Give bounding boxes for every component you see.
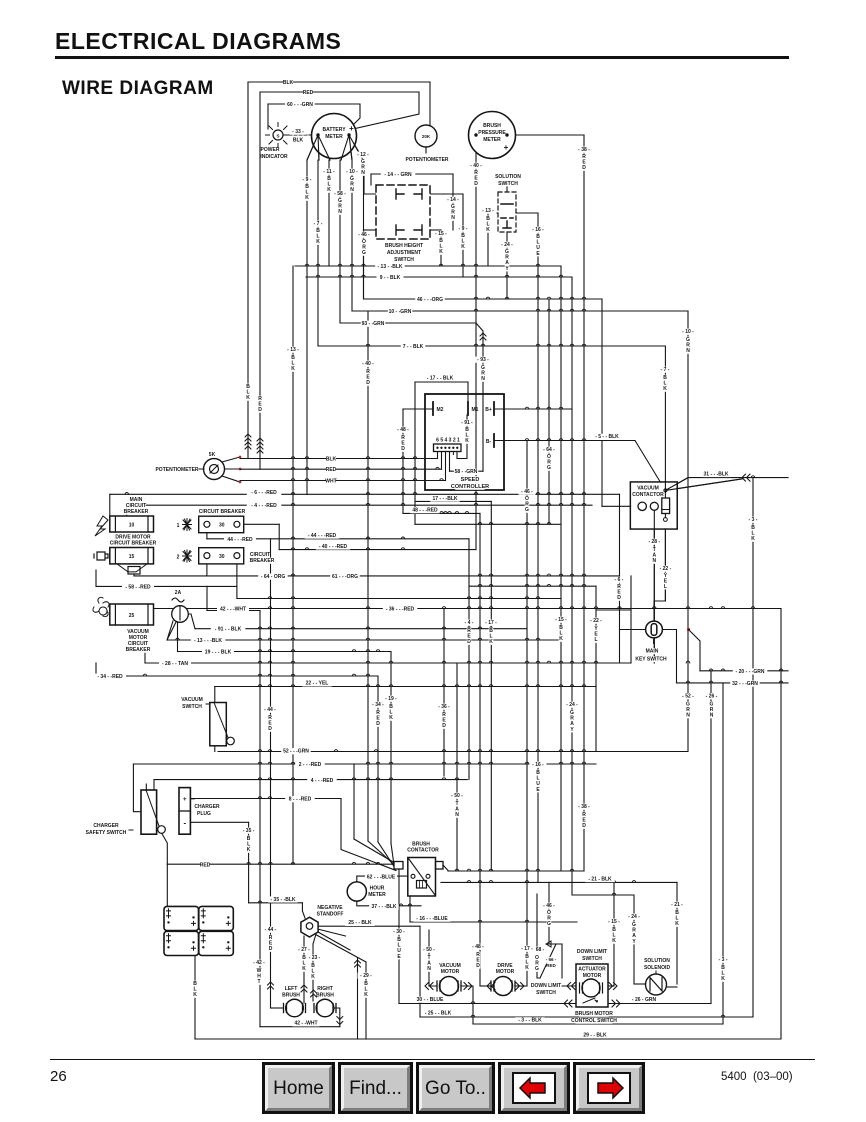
svg-text:- 16 -: - 16 - [532,762,544,768]
wire 23 BLK vertical [312,957,314,1001]
wire 17 BLK upper horizontal [415,523,561,525]
wire 48 RED lower [403,512,480,514]
svg-text:- 91 -: - 91 - [461,420,473,426]
battery negative wire [194,955,196,1040]
wire 17 BLK right vertical [490,501,492,871]
svg-text:- 15 -: - 15 - [555,617,567,623]
svg-text:42 - - -WHT: 42 - - -WHT [220,606,246,612]
svg-text:5K: 5K [209,452,216,458]
svg-text:- 13 - -BLK: - 13 - -BLK [378,264,403,270]
wire 24 GRAY jog [572,882,634,984]
svg-text:- 21 - BLK: - 21 - BLK [588,876,612,882]
svg-text:- 28 - - TAN: - 28 - - TAN [162,661,188,667]
svg-text:BRUSH HEIGHT: BRUSH HEIGHT [385,243,423,249]
svg-text:RED: RED [200,862,211,868]
svg-text:D: D [582,165,586,171]
svg-text:BREAKER: BREAKER [250,558,275,564]
svg-text:SPEED: SPEED [461,477,480,483]
svg-text:K: K [486,227,490,233]
wire 8 RED elbow to brush contactor [341,799,396,871]
potentiometer 5K [204,459,225,480]
svg-text:BRUSH: BRUSH [282,993,300,999]
battery positive wire [166,864,168,906]
connector 654321 [433,437,463,443]
wire 19 BLK [178,651,392,653]
svg-text:DOWN LIMIT: DOWN LIMIT [577,949,607,955]
brush contactor [414,841,429,847]
svg-text:K: K [291,366,295,372]
svg-text:93 - -GRN: 93 - -GRN [362,321,385,327]
svg-text:PLUG: PLUG [197,811,211,817]
svg-text:37 - - -BLK: 37 - - -BLK [372,904,397,910]
nav button GoTo [416,1062,495,1114]
svg-text:CONTACTOR: CONTACTOR [632,492,664,498]
svg-text:- 38 -: - 38 - [578,147,590,153]
svg-text:D: D [474,181,478,187]
wire BLK left vertical [247,82,249,459]
wire 2 RED drop to contactor [353,764,355,839]
rail 871 [448,870,584,872]
svg-text:INDICATOR: INDICATOR [260,154,288,160]
wire 29 BLK vertical [365,962,367,1039]
svg-text:POTENTIOMETER: POTENTIOMETER [405,157,448,163]
circuit breaker 1 output lead [240,523,279,525]
svg-text:D: D [376,721,380,727]
svg-text:POWER: POWER [261,147,280,153]
wire 40 RED vertical middle [367,311,369,841]
svg-text:SOLUTION: SOLUTION [495,174,521,180]
wire 60 GRN [268,103,360,105]
svg-text:CONTROLLER: CONTROLLER [451,484,489,490]
wire 44 RED [207,538,469,540]
svg-text:42 - -WHT: 42 - -WHT [294,1021,317,1027]
svg-text:- 44 - - -RED: - 44 - - -RED [308,533,337,539]
svg-text:46 - - -ORG: 46 - - -ORG [417,297,443,303]
svg-text:- 52 -: - 52 - [682,694,694,700]
svg-text:MOTOR: MOTOR [441,969,460,975]
svg-text:- 93 -: - 93 - [477,357,489,363]
svg-text:BRUSH: BRUSH [483,123,501,129]
wire 12 GRN below battery meter [363,160,365,299]
brush pressure meter [469,112,516,159]
wire 25 BLK from standoff [318,925,420,927]
down limit switch wires [536,894,538,944]
svg-text:30: 30 [219,523,225,529]
wire 64 ORG vertical [548,299,550,524]
svg-text:BRUSH MOTOR: BRUSH MOTOR [575,1011,613,1017]
svg-text:S: S [276,134,279,139]
wire 4 RED [127,504,592,506]
svg-text:- 19 -: - 19 - [385,696,397,702]
svg-text:- 6 - - -RED: - 6 - - -RED [251,490,277,496]
svg-text:- 28 -: - 28 - [648,539,660,545]
brush motor leads [334,1008,340,1027]
svg-text:- 29 -: - 29 - [360,973,372,979]
wire 36 RED mid vertical [443,609,445,777]
svg-text:G: G [525,507,529,513]
power indicator [273,130,283,140]
svg-text:10: 10 [129,523,135,529]
battery meter [312,114,357,159]
svg-text:- 24 -: - 24 - [628,914,640,920]
svg-text:ADJUSTMENT: ADJUSTMENT [387,250,421,256]
wire 7 BLK below battery meter [317,160,319,346]
svg-text:- 22 -: - 22 - [590,618,602,624]
svg-text:BREAKER: BREAKER [126,647,151,653]
charger plug leads [190,798,194,800]
svg-text:- 13 -: - 13 - [482,208,494,214]
svg-text:VACUUM: VACUUM [181,697,203,703]
svg-text:+: + [183,796,187,803]
svg-text:- 23 -: - 23 - [309,955,321,961]
svg-text:N: N [686,348,690,354]
svg-text:POTENTIOMETER: POTENTIOMETER [155,467,198,473]
wire 13 BLK right vertical [560,266,562,871]
wire 29 BLK bottom rail [195,1038,781,1040]
wire 58 RED [96,585,237,587]
wire 15 BLK vertical [613,882,615,986]
svg-text:- 36 -: - 36 - [438,704,450,710]
wire 22 YEL from contactor to key switch [654,522,665,622]
vacuum contactor coil leads [664,346,666,518]
svg-text:30: 30 [219,554,225,560]
solution switch left lead wire 13 BLK [488,213,498,266]
fuse 2A [175,590,182,596]
wire 2 RED [133,763,596,765]
wire 93 GRN vertical with chevrons [476,323,483,471]
svg-text:32 - - -GRN: 32 - - -GRN [732,681,758,687]
solution solenoid [646,958,668,964]
svg-text:CONTROL SWITCH: CONTROL SWITCH [571,1018,617,1024]
wire 3 BLK vertical from 32 GRN [722,683,724,1024]
svg-text:- 58 -: - 58 - [334,191,346,197]
svg-text:BRUSH: BRUSH [316,993,334,999]
nav button forward arrow [573,1062,645,1114]
negative standoff [319,905,341,911]
svg-text:8 - - -RED: 8 - - -RED [289,797,312,803]
drive motor circuit breaker [118,534,148,540]
svg-text:K: K [327,187,331,193]
svg-text:D: D [582,823,586,829]
svg-text:T: T [257,979,260,985]
svg-text:D: D [467,639,471,645]
terminal M2 lead wire 48 RED [403,408,433,410]
vacuum switch bottom lead [214,746,216,752]
speed controller [425,394,504,490]
wire 58 GRN from pin 3 [449,451,451,471]
svg-text:K: K [675,921,679,927]
wire 30 BLUE rail [399,1003,711,1005]
wire 28 TAN from contactor [653,511,655,664]
svg-text:LEFT: LEFT [285,986,298,992]
wire 33 BLK dashes [284,134,312,136]
wire 58 RED jog [236,558,238,598]
wire 9 BLK vertical right [462,194,464,277]
svg-text:STANDOFF: STANDOFF [317,912,344,918]
svg-text:K: K [311,974,315,980]
contactor right tab lead [443,865,449,871]
wire BLK top [248,81,430,83]
svg-text:B-: B- [486,439,492,445]
svg-text:- 9 -: - 9 - [459,226,468,232]
svg-text:- 34 - -RED: - 34 - -RED [97,674,123,680]
svg-text:- 12 -: - 12 - [357,152,369,158]
svg-text:N: N [338,209,342,215]
wire 3 BLK bottom rail [473,1023,723,1025]
svg-text:2: 2 [177,555,180,561]
wire 6 RED right vertical [619,494,621,663]
wire 36 RED horizontal [154,608,782,610]
wire 27 BLK vertical [303,952,305,1003]
wire BLK from 5K pot to pin 6 [240,458,438,460]
wire 42 WHT jog [206,586,208,610]
circuit breaker 2 [176,554,181,560]
svg-text:19 - - - BLK: 19 - - - BLK [205,650,232,656]
svg-text:SWITCH: SWITCH [394,257,414,263]
key switch left lead [620,629,646,631]
svg-text:BLK: BLK [326,457,337,463]
nav button Home [262,1062,335,1114]
svg-text:- 3 -: - 3 - [719,957,728,963]
down limit switch left labels [533,983,560,989]
wire 46 ORG lower vertical [548,882,550,944]
svg-text:L: L [664,584,667,590]
svg-text:MOTOR: MOTOR [583,973,602,979]
wire 28 TAN below contactor [653,511,655,664]
svg-text:SOLENOID: SOLENOID [644,965,671,971]
svg-text:K: K [489,639,493,645]
svg-text:RED: RED [303,90,314,96]
svg-text:30 - - BLUE: 30 - - BLUE [417,997,444,1003]
contactor pull-in diagonals [665,478,742,491]
svg-text:N: N [361,170,365,176]
drive motor bottom [498,963,513,969]
svg-text:31 - - -BLK: 31 - - -BLK [704,471,729,477]
svg-text:G: G [362,250,366,256]
wire 34 RED right vertical [377,676,379,842]
charger plug [179,788,190,835]
wire 26 GRN vertical [710,671,712,1004]
svg-text:- 13 -: - 13 - [287,347,299,353]
wire 3 BLK right vertical [752,478,754,1017]
wire 35 BLK vertical from charger [248,822,250,903]
wire 52 GRN [218,751,688,753]
wire 24 GRAY below solution switch [506,232,508,299]
svg-text:K: K [461,244,465,250]
svg-text:- 13 - - -BLK: - 13 - - -BLK [194,638,222,644]
left brush motor [285,986,297,992]
battery meter terminal fans [307,135,330,160]
wire 19 BLK right vertical [390,652,392,844]
vacuum switch top lead [214,687,216,703]
svg-text:D: D [268,726,272,732]
wire 10 GRN right vertical [687,311,689,752]
svg-text:K: K [247,847,251,853]
svg-text:- 91 - - BLK: - 91 - - BLK [215,627,242,633]
svg-text:68 -: 68 - [536,947,545,953]
svg-text:17 - - -BLK: 17 - - -BLK [433,496,458,502]
svg-text:N: N [710,713,714,719]
wire RED from 5K pot to pin 5 [240,468,442,470]
wire 25 BLK bottom rail [420,1016,753,1018]
key switch right lead [663,630,677,683]
wire 91 BLK from pin 1 [456,451,458,459]
svg-text:K: K [193,992,197,998]
wire 17 BLK top [415,381,468,383]
svg-text:METER: METER [483,137,501,143]
vacuum switch [184,697,201,703]
svg-text:- 17 -: - 17 - [521,946,533,952]
wire 42 WHT vertical [259,862,261,1026]
svg-text:52 - - -GRN: 52 - - -GRN [283,749,309,755]
wire 58 GRN below battery meter [339,160,341,323]
wire 11 BLK below battery meter [328,160,330,266]
wire 46 ORG / 17 BLK long vertical [526,441,528,987]
svg-text:- 33 -: - 33 - [292,129,304,135]
wire 42 WHT bottom [260,1026,340,1028]
svg-text:- 30 -: - 30 - [393,929,405,935]
svg-text:- 44 -: - 44 - [265,927,277,933]
wire 40 RED from brush pressure meter [475,135,477,550]
svg-text:SWITCH: SWITCH [536,990,556,996]
wire 22 YEL right vertical [595,586,597,751]
svg-text:D: D [442,723,446,729]
solution switch [497,174,519,180]
wire 13 BLK lower horizontal [167,639,561,641]
svg-text:- 10 -: - 10 - [346,169,358,175]
5K pot fan wires [222,457,240,482]
wire 14 GRN horizontal [371,173,453,175]
svg-text:10 - -GRN: 10 - -GRN [389,309,412,315]
svg-text:METER: METER [325,134,343,140]
svg-text:- 16 -: - 16 - [532,227,544,233]
svg-text:58 - -GRN: 58 - -GRN [455,469,478,475]
svg-text:MOTOR: MOTOR [496,969,515,975]
drive motor leads [480,985,491,987]
svg-text:WHT: WHT [325,479,336,485]
wire 9 BLK right vertical [571,277,573,882]
svg-text:- 35 -: - 35 - [243,828,255,834]
wire 42 WHT vertical mid [259,611,261,865]
svg-text:CHARGER: CHARGER [93,823,119,829]
svg-text:- 50 -: - 50 - [423,947,435,953]
svg-text:BLK: BLK [293,138,304,144]
svg-text:RED: RED [326,467,337,473]
svg-text:- 36 - - -RED: - 36 - - -RED [386,607,415,613]
svg-text:K: K [525,965,529,971]
svg-text:62 - - -BLUE: 62 - - -BLUE [367,874,396,880]
svg-text:- 14 - - GRN: - 14 - - GRN [384,172,412,178]
brush height switch right leads [430,193,463,195]
svg-text:- 24 -: - 24 - [501,242,513,248]
svg-text:1: 1 [177,523,180,529]
bus wire 93 GRN [340,322,476,324]
svg-text:- 25 - - BLK: - 25 - - BLK [425,1011,452,1017]
wire RED left vertical [259,92,261,469]
svg-text:- 38 -: - 38 - [578,804,590,810]
svg-text:- 42 -: - 42 - [253,960,265,966]
wire 32 GRN [677,682,789,684]
svg-text:- 27 -: - 27 - [298,947,310,953]
wire WHT from 5K pot to pin 4 [240,480,446,482]
svg-text:PRESSURE: PRESSURE [478,130,506,136]
svg-text:RED: RED [546,963,556,968]
svg-text:- 26 - GRN: - 26 - GRN [632,997,657,1003]
actuator leads [562,985,579,987]
svg-text:K: K [305,195,309,201]
svg-text:- 26 -: - 26 - [706,694,718,700]
wire 36 RED right vertical [780,609,782,1040]
svg-text:- 64 -: - 64 - [543,447,555,453]
wire 40 RED horizontal [279,549,476,551]
svg-text:- 3 - - BLK: - 3 - - BLK [518,1018,542,1024]
wire 20 GRN jog [689,630,701,671]
right brush motor [318,986,333,992]
svg-text:- 20 - - -GRN: - 20 - - -GRN [736,669,765,675]
svg-text:G: G [547,465,551,471]
svg-text:48 - - -RED: 48 - - -RED [412,508,438,514]
svg-text:44 - - -RED: 44 - - -RED [227,537,253,543]
svg-text:D: D [258,407,262,413]
svg-text:D: D [476,963,480,969]
wire 9 BLK below battery meter [306,160,308,494]
svg-text:+: + [349,124,354,133]
nav button Find [338,1062,413,1114]
svg-text:- 50 -: - 50 - [451,793,463,799]
svg-text:BLK: BLK [283,80,294,86]
wire 14 GRN vertical [452,174,454,230]
bus wire 7 BLK [318,345,665,347]
svg-text:+: + [504,143,509,152]
circuit breaker 1 [176,523,181,529]
svg-text:- 7 -: - 7 - [661,367,670,373]
charger safety switch [141,790,157,834]
svg-text:K: K [246,395,250,401]
svg-text:- 35 - -BLK: - 35 - -BLK [271,897,296,903]
svg-text:- 14 -: - 14 - [447,197,459,203]
standoff fan wires [304,929,366,962]
bus wire 10 GRN [352,310,688,312]
wire 35 BLK [249,902,303,904]
svg-text:- 46 -: - 46 - [543,903,555,909]
svg-text:SWITCH: SWITCH [182,704,202,710]
bus wire 9 BLK [306,276,572,278]
svg-text:- 15 -: - 15 - [608,919,620,925]
svg-text:VACUUM: VACUUM [637,486,659,492]
wire 44 RED right vertical [468,539,470,780]
svg-text:29 - - BLK: 29 - - BLK [583,1033,607,1039]
svg-text:DOWN LIMIT: DOWN LIMIT [531,983,561,989]
terminal B+ lead [494,408,572,410]
svg-text:- 48 -: - 48 - [397,427,409,433]
vacuum motor bottom [442,963,459,969]
svg-text:K: K [302,966,306,972]
nav button back arrow [498,1062,570,1114]
svg-text:- 40 - - -RED: - 40 - - -RED [319,544,348,550]
svg-text:SOLUTION: SOLUTION [644,958,670,964]
svg-text:25 - - BLK: 25 - - BLK [348,920,372,926]
svg-text:- 9 -: - 9 - [303,177,312,183]
wire 20 GRN [700,670,788,672]
svg-text:- 24 -: - 24 - [566,702,578,708]
svg-text:K: K [663,386,667,392]
svg-text:2A: 2A [175,590,182,596]
svg-text:N: N [427,966,431,972]
svg-text:K: K [559,636,563,642]
svg-text:K: K [316,239,320,245]
wire 8 RED [190,798,341,800]
wire 6 RED [110,493,620,495]
